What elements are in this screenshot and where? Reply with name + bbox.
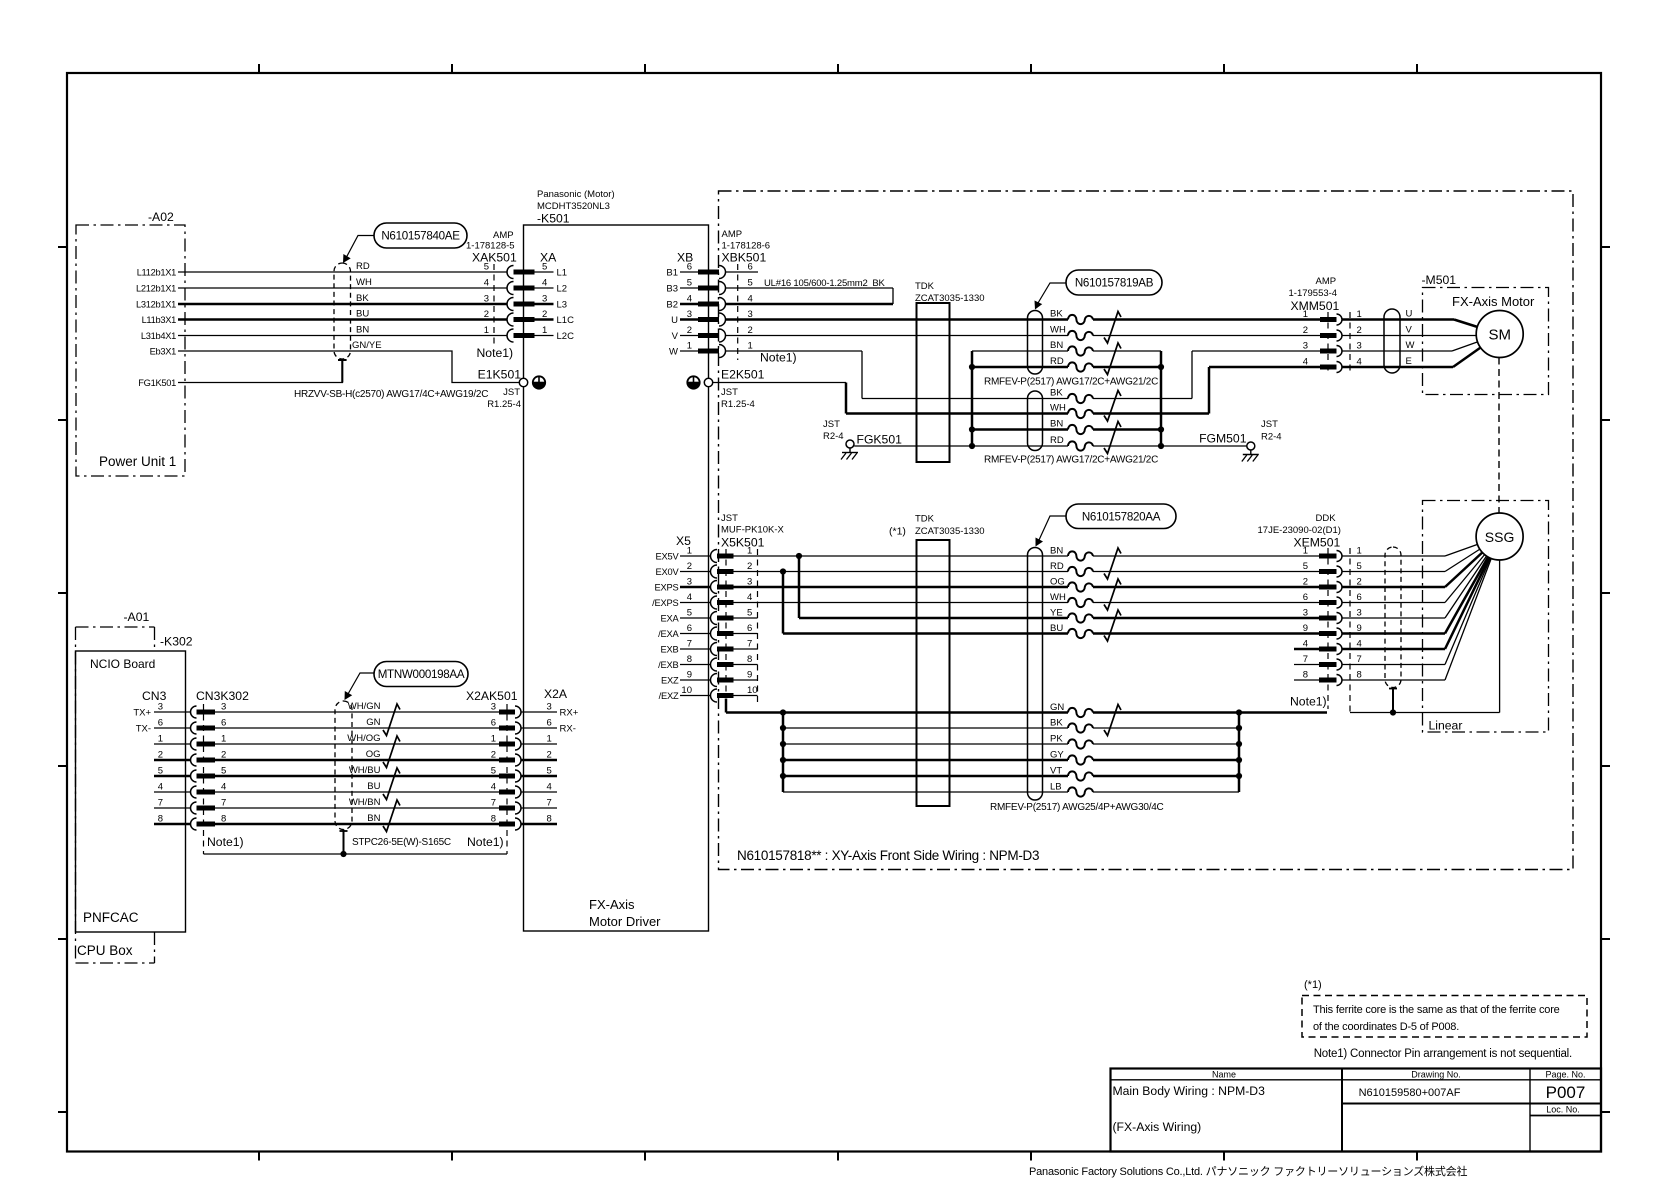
svg-text:6: 6 bbox=[491, 718, 496, 729]
svg-text:8: 8 bbox=[1303, 670, 1308, 681]
svg-text:/EXZ: /EXZ bbox=[659, 691, 679, 701]
svg-text:2: 2 bbox=[1303, 325, 1308, 336]
power wires L1/L2/L3/L1C/L2C with node labels bbox=[136, 267, 507, 388]
svg-text:7: 7 bbox=[547, 798, 552, 809]
svg-text:Name: Name bbox=[1212, 1070, 1236, 1080]
svg-text:-K501: -K501 bbox=[537, 212, 570, 226]
balloon N610157820AA bbox=[1036, 504, 1177, 547]
protective earth symbol at E2K501 bbox=[687, 376, 699, 388]
svg-text:BN: BN bbox=[1050, 546, 1063, 557]
svg-text:1: 1 bbox=[1357, 546, 1362, 557]
svg-text:of the coordinates D-5 of P008: of the coordinates D-5 of P008. bbox=[1313, 1021, 1459, 1033]
svg-text:4: 4 bbox=[158, 782, 163, 793]
svg-text:1: 1 bbox=[221, 734, 226, 745]
svg-text:2: 2 bbox=[1303, 577, 1308, 588]
svg-text:Power Unit 1: Power Unit 1 bbox=[99, 454, 176, 469]
cable capsule encoder right dashed bbox=[1385, 547, 1401, 688]
fan wires XEM501 to SSG bbox=[1342, 537, 1500, 681]
wire RD brake pair bbox=[972, 366, 1161, 369]
svg-text:/EXPS: /EXPS bbox=[652, 598, 678, 608]
svg-text:Note1): Note1) bbox=[477, 346, 514, 360]
svg-text:7: 7 bbox=[1357, 654, 1362, 665]
svg-text:B3: B3 bbox=[666, 283, 678, 294]
svg-text:Motor Driver: Motor Driver bbox=[589, 914, 661, 929]
svg-text:Loc. No.: Loc. No. bbox=[1546, 1105, 1580, 1115]
svg-text:L1C: L1C bbox=[557, 315, 575, 326]
svg-text:17JE-23090-02(D1): 17JE-23090-02(D1) bbox=[1258, 525, 1341, 536]
svg-text:B1: B1 bbox=[666, 267, 678, 278]
earth symbol FGK501 bbox=[849, 448, 851, 453]
twist symbols upper cables bbox=[1068, 312, 1121, 454]
wire color labels encoder cable bbox=[1050, 546, 1066, 793]
svg-text:(*1): (*1) bbox=[1304, 979, 1322, 991]
area XY-Axis Front Side Wiring boundary bbox=[719, 191, 1574, 870]
svg-text:FGK501: FGK501 bbox=[857, 433, 903, 447]
box NCIO Board (-K302) bbox=[76, 635, 193, 933]
svg-text:1: 1 bbox=[491, 734, 496, 745]
wire W to SM motor bbox=[1342, 334, 1500, 351]
svg-text:BK: BK bbox=[356, 293, 369, 304]
svg-text:10: 10 bbox=[747, 685, 758, 696]
svg-text:PNFCAC: PNFCAC bbox=[83, 910, 139, 925]
svg-text:BU: BU bbox=[367, 781, 380, 792]
svg-text:Eb3X1: Eb3X1 bbox=[150, 346, 177, 356]
svg-text:L2C: L2C bbox=[557, 331, 575, 342]
svg-text:MCDHT3520NL3: MCDHT3520NL3 bbox=[537, 201, 610, 212]
svg-text:6: 6 bbox=[158, 718, 163, 729]
wire SSG to shield bbox=[1499, 560, 1501, 713]
wire XBK501 pin6 stub bbox=[726, 271, 759, 273]
svg-text:7: 7 bbox=[687, 639, 692, 650]
wire E to SM motor bbox=[1342, 334, 1500, 367]
svg-text:6: 6 bbox=[1357, 592, 1362, 603]
wire color labels BK WH BN RD lower cable bbox=[1050, 388, 1066, 447]
svg-text:N610157840AE: N610157840AE bbox=[381, 230, 460, 243]
svg-text:-K302: -K302 bbox=[160, 635, 193, 649]
encoder SSG circle bbox=[1476, 513, 1523, 560]
svg-text:YE: YE bbox=[1050, 608, 1063, 619]
svg-text:L1: L1 bbox=[557, 268, 568, 279]
svg-text:Note1): Note1) bbox=[1290, 695, 1327, 709]
svg-text:EXB: EXB bbox=[660, 644, 678, 654]
svg-text:RMFEV-P(2517) AWG17/2C+AWG21/2: RMFEV-P(2517) AWG17/2C+AWG21/2C bbox=[984, 455, 1158, 466]
svg-text:-A02: -A02 bbox=[148, 210, 174, 224]
cable capsule RMFEV-P upper bbox=[1028, 311, 1043, 375]
svg-text:2: 2 bbox=[547, 750, 552, 761]
svg-text:6: 6 bbox=[748, 262, 753, 273]
svg-text:RD: RD bbox=[1050, 356, 1064, 367]
svg-text:ZCAT3035-1330: ZCAT3035-1330 bbox=[915, 526, 985, 537]
svg-text:BN: BN bbox=[1050, 419, 1063, 430]
svg-text:3: 3 bbox=[547, 702, 552, 713]
svg-text:4: 4 bbox=[687, 592, 692, 603]
svg-text:3: 3 bbox=[1357, 608, 1362, 619]
balloon N610157819AB bbox=[1035, 270, 1163, 310]
svg-text:WH/BU: WH/BU bbox=[349, 765, 381, 776]
svg-text:9: 9 bbox=[687, 670, 692, 681]
svg-text:2: 2 bbox=[687, 325, 692, 336]
box FX-Axis Motor (-M501) bbox=[1422, 273, 1549, 395]
svg-text:LB: LB bbox=[1050, 782, 1062, 793]
wire stubs X5K501 pins 5-10 bbox=[734, 618, 758, 696]
svg-text:FGM501: FGM501 bbox=[1199, 432, 1247, 446]
note box ferrite (*1) bbox=[1302, 979, 1587, 1037]
svg-text:FX-Axis: FX-Axis bbox=[589, 897, 635, 912]
svg-text:L2: L2 bbox=[557, 284, 568, 295]
connector X2A pins RX+ RX- bbox=[521, 687, 579, 825]
svg-text:V: V bbox=[672, 331, 679, 342]
svg-text:MUF-PK10K-X: MUF-PK10K-X bbox=[721, 525, 784, 536]
svg-text:EXZ: EXZ bbox=[661, 675, 679, 685]
svg-text:7: 7 bbox=[491, 798, 496, 809]
svg-text:Panasonic (Motor): Panasonic (Motor) bbox=[537, 189, 615, 200]
svg-text:This ferrite core is the same: This ferrite core is the same as that of… bbox=[1313, 1004, 1560, 1016]
wire color labels BK WH BN RD upper cable bbox=[1050, 309, 1066, 368]
ground FGM501 bbox=[1199, 419, 1282, 450]
svg-text:XBK501: XBK501 bbox=[722, 251, 767, 265]
svg-text:Note1) Connector Pin arrangeme: Note1) Connector Pin arrangement is not … bbox=[1314, 1048, 1572, 1060]
wire stubs XEM501 pins 4 7 8 bbox=[1294, 649, 1319, 680]
wire W phase XBK501-1 via BK pair to XMM501-3 bbox=[726, 351, 1321, 399]
svg-text:DDK: DDK bbox=[1316, 513, 1337, 524]
svg-text:3: 3 bbox=[484, 294, 489, 305]
encoder cable shield drain bbox=[1389, 688, 1397, 713]
svg-text:5: 5 bbox=[1357, 561, 1362, 572]
wire color labels RD WH BK BU BN GN/YE bbox=[352, 261, 382, 351]
svg-text:7: 7 bbox=[747, 639, 752, 650]
svg-text:JST: JST bbox=[1261, 419, 1278, 430]
svg-text:1-179553-4: 1-179553-4 bbox=[1289, 288, 1338, 299]
ground E2K501 terminal bbox=[704, 368, 764, 411]
wire color labels WH/GN GN WH/OG OG WH/BU BU WH/BN BN bbox=[347, 701, 380, 824]
svg-text:SSG: SSG bbox=[1485, 529, 1515, 545]
box CPU Box (-A01) bbox=[76, 610, 155, 963]
svg-text:BU: BU bbox=[356, 309, 369, 320]
svg-text:7: 7 bbox=[158, 798, 163, 809]
svg-text:6: 6 bbox=[221, 718, 226, 729]
svg-text:6: 6 bbox=[1303, 592, 1308, 603]
svg-text:5: 5 bbox=[747, 608, 752, 619]
svg-text:R2-4: R2-4 bbox=[1261, 432, 1282, 443]
svg-text:MTNW000198AA: MTNW000198AA bbox=[378, 668, 465, 681]
svg-text:BN: BN bbox=[356, 325, 369, 336]
svg-text:3: 3 bbox=[687, 309, 692, 320]
svg-text:N610159580+007AF: N610159580+007AF bbox=[1359, 1087, 1461, 1099]
svg-text:4: 4 bbox=[1303, 357, 1308, 368]
svg-text:JST: JST bbox=[721, 513, 738, 524]
svg-text:EX0V: EX0V bbox=[656, 567, 680, 577]
svg-text:L31b4X1: L31b4X1 bbox=[141, 331, 176, 341]
balloon MTNW000198AA bbox=[345, 662, 469, 701]
connector XAK501 (AMP 1-178128-5) bbox=[466, 230, 535, 344]
ferrite core TDK ZCAT3035-1330 lower (*1) bbox=[889, 514, 985, 807]
junction column bottom right x1239 bbox=[1236, 713, 1242, 793]
wire V to SM motor bbox=[1342, 335, 1500, 337]
box FX-Axis Motor Driver (-K501) bbox=[524, 189, 709, 931]
svg-text:XEM501: XEM501 bbox=[1294, 536, 1341, 550]
svg-text:1: 1 bbox=[158, 734, 163, 745]
wire RD2 FGK501 to FGM501 bbox=[854, 445, 1247, 447]
svg-text:VT: VT bbox=[1050, 766, 1062, 777]
svg-text:AMP: AMP bbox=[722, 229, 743, 240]
svg-text:V: V bbox=[1406, 325, 1413, 336]
cable capsule STPC26 bbox=[335, 701, 352, 830]
svg-text:E: E bbox=[1406, 356, 1412, 367]
shield wire between connector shells bbox=[204, 851, 508, 857]
svg-text:N610157820AA: N610157820AA bbox=[1082, 510, 1161, 523]
wire EX0V row with branch to BU bbox=[734, 568, 1320, 633]
svg-text:1: 1 bbox=[748, 341, 753, 352]
svg-text:WH: WH bbox=[356, 277, 372, 288]
svg-text:U: U bbox=[671, 315, 678, 326]
svg-text:5: 5 bbox=[542, 262, 547, 273]
svg-text:4: 4 bbox=[221, 782, 226, 793]
wire FG1K501 to cable shield bbox=[178, 382, 343, 384]
svg-text:WH: WH bbox=[1050, 592, 1066, 603]
svg-text:/EXA: /EXA bbox=[658, 629, 679, 639]
svg-text:-A01: -A01 bbox=[124, 610, 150, 624]
svg-text:W: W bbox=[669, 346, 678, 357]
svg-text:AMP: AMP bbox=[493, 230, 514, 241]
svg-text:P007: P007 bbox=[1546, 1083, 1586, 1102]
svg-text:WH: WH bbox=[1050, 403, 1066, 414]
svg-text:3: 3 bbox=[158, 702, 163, 713]
svg-text:3: 3 bbox=[491, 702, 496, 713]
svg-text:2: 2 bbox=[747, 561, 752, 572]
junction column bottom left x783 bbox=[780, 713, 786, 793]
wire shield to SSG bbox=[1350, 709, 1500, 715]
ground FGK501 bbox=[823, 419, 902, 448]
svg-text:GN: GN bbox=[1050, 702, 1064, 713]
svg-text:4: 4 bbox=[687, 294, 692, 305]
svg-text:8: 8 bbox=[1357, 670, 1362, 681]
svg-text:OG: OG bbox=[1050, 577, 1065, 588]
svg-text:BN: BN bbox=[1050, 340, 1063, 351]
svg-text:PK: PK bbox=[1050, 734, 1063, 745]
svg-text:9: 9 bbox=[747, 670, 752, 681]
svg-text:TX+: TX+ bbox=[133, 708, 151, 719]
svg-text:Panasonic Factory Solutions Co: Panasonic Factory Solutions Co.,Ltd. パナソ… bbox=[1029, 1164, 1467, 1178]
svg-text:L11b3X1: L11b3X1 bbox=[142, 315, 177, 325]
svg-text:FG1K501: FG1K501 bbox=[138, 378, 176, 388]
svg-text:2: 2 bbox=[484, 309, 489, 320]
svg-text:EXPS: EXPS bbox=[654, 582, 678, 592]
svg-text:2: 2 bbox=[748, 325, 753, 336]
ferrite core TDK ZCAT3035-1330 upper bbox=[915, 281, 985, 462]
svg-text:L312b1X1: L312b1X1 bbox=[136, 299, 176, 309]
svg-text:6: 6 bbox=[687, 262, 692, 273]
wire VT row bbox=[783, 775, 1239, 778]
svg-text:JST: JST bbox=[823, 419, 840, 430]
svg-text:8: 8 bbox=[547, 814, 552, 825]
box Linear scale bbox=[1423, 501, 1549, 733]
connector X2AK501 bbox=[466, 689, 521, 854]
ground E1K501 terminal circle bbox=[519, 378, 527, 386]
svg-text:X5K501: X5K501 bbox=[721, 536, 765, 550]
svg-text:Linear: Linear bbox=[1429, 719, 1463, 733]
svg-text:1: 1 bbox=[484, 325, 489, 336]
svg-text:R1.25-4: R1.25-4 bbox=[487, 399, 521, 410]
svg-text:-M501: -M501 bbox=[1422, 273, 1457, 287]
svg-text:2: 2 bbox=[687, 561, 692, 572]
motor shaft dashed link bbox=[1498, 358, 1500, 514]
svg-text:L212b1X1: L212b1X1 bbox=[136, 283, 176, 293]
svg-text:NCIO Board: NCIO Board bbox=[90, 657, 155, 671]
cable capsule RMFEV-P lower bbox=[1028, 391, 1043, 451]
wire E2K501 via WH pair to XMM501-4 bbox=[713, 367, 1320, 414]
svg-text:5: 5 bbox=[687, 608, 692, 619]
svg-text:XMM501: XMM501 bbox=[1291, 299, 1340, 313]
svg-text:7: 7 bbox=[1303, 654, 1308, 665]
svg-text:1: 1 bbox=[687, 341, 692, 352]
svg-text:(FX-Axis Wiring): (FX-Axis Wiring) bbox=[1113, 1120, 1202, 1134]
connector X5 pins bbox=[652, 534, 710, 701]
connector X5K501 (JST MUF-PK10K-X) bbox=[711, 513, 785, 702]
svg-text:5: 5 bbox=[687, 278, 692, 289]
svg-text:6: 6 bbox=[747, 623, 752, 634]
wire LB row bbox=[783, 791, 1239, 793]
svg-text:Note1): Note1) bbox=[760, 351, 797, 365]
svg-text:E1K501: E1K501 bbox=[478, 368, 522, 382]
svg-text:6: 6 bbox=[547, 718, 552, 729]
svg-text:EXA: EXA bbox=[660, 613, 679, 623]
wire GY row bbox=[783, 759, 1239, 762]
cable capsule motor leads bbox=[1384, 309, 1400, 373]
svg-text:Main Body Wiring : NPM-D3: Main Body Wiring : NPM-D3 bbox=[1113, 1084, 1266, 1098]
twist symbols LAN cable bbox=[383, 704, 400, 832]
svg-text:(*1): (*1) bbox=[889, 526, 906, 538]
svg-text:HRZVV-SB-H(c2570) AWG17/4C+AWG: HRZVV-SB-H(c2570) AWG17/4C+AWG19/2C bbox=[294, 389, 488, 400]
svg-text:1: 1 bbox=[687, 546, 692, 557]
svg-text:BU: BU bbox=[1050, 623, 1063, 634]
svg-text:E2K501: E2K501 bbox=[721, 368, 765, 382]
svg-text:OG: OG bbox=[366, 749, 381, 760]
wire EXPS OG row bbox=[734, 586, 1320, 589]
svg-text:RX+: RX+ bbox=[560, 708, 579, 719]
svg-text:STPC26-5E(W)-S165C: STPC26-5E(W)-S165C bbox=[352, 837, 451, 848]
wire V phase XBK501-2 to XMM501-2 bbox=[726, 335, 1321, 337]
svg-text:GN: GN bbox=[366, 717, 380, 728]
svg-text:Note1): Note1) bbox=[207, 835, 244, 849]
svg-text:4: 4 bbox=[542, 278, 547, 289]
svg-text:EX5V: EX5V bbox=[656, 551, 680, 561]
cable capsule RMFEV-P encoder bbox=[1028, 548, 1043, 801]
svg-text:2: 2 bbox=[1357, 325, 1362, 336]
svg-text:3: 3 bbox=[1357, 341, 1362, 352]
wire GN shield row start bbox=[726, 699, 1327, 716]
svg-text:/EXB: /EXB bbox=[658, 660, 678, 670]
earth symbol FGM501 bbox=[1250, 450, 1252, 455]
svg-text:BK: BK bbox=[1050, 309, 1063, 320]
svg-text:BN: BN bbox=[367, 813, 380, 824]
svg-text:Note1): Note1) bbox=[467, 835, 504, 849]
svg-text:Page. No.: Page. No. bbox=[1545, 1070, 1585, 1080]
svg-text:2: 2 bbox=[491, 750, 496, 761]
wire U phase XBK501-3 to XMM501-1 bbox=[726, 318, 1321, 321]
svg-text:RD: RD bbox=[1050, 561, 1064, 572]
svg-text:5: 5 bbox=[484, 262, 489, 273]
svg-text:8: 8 bbox=[687, 654, 692, 665]
svg-text:WH: WH bbox=[1050, 325, 1066, 336]
cable capsule HRZVV-SB-H bbox=[334, 263, 351, 359]
svg-text:4: 4 bbox=[484, 278, 489, 289]
svg-text:4: 4 bbox=[547, 782, 552, 793]
svg-text:R1.25-4: R1.25-4 bbox=[721, 399, 755, 410]
svg-text:UL#16 105/600-1.25mm2 BK: UL#16 105/600-1.25mm2 BK bbox=[764, 278, 886, 289]
svg-text:4: 4 bbox=[747, 592, 752, 603]
svg-text:TDK: TDK bbox=[915, 281, 935, 292]
svg-text:10: 10 bbox=[681, 685, 692, 696]
svg-text:3: 3 bbox=[1303, 608, 1308, 619]
svg-text:ZCAT3035-1330: ZCAT3035-1330 bbox=[915, 293, 985, 304]
wire /EXPS WH row bbox=[734, 602, 1320, 604]
protective earth symbol at E1K501 bbox=[533, 376, 545, 388]
svg-text:TDK: TDK bbox=[915, 514, 935, 525]
wire BN brake pair bbox=[972, 350, 1161, 352]
svg-text:9: 9 bbox=[1303, 623, 1308, 634]
connector CN3 bbox=[133, 689, 190, 825]
connector XBK501 (AMP 1-178128-6) bbox=[698, 229, 797, 365]
svg-text:X2A: X2A bbox=[544, 687, 568, 701]
svg-text:6: 6 bbox=[687, 623, 692, 634]
svg-text:N610157818** : XY-Axis Front S: N610157818** : XY-Axis Front Side Wiring… bbox=[737, 848, 1039, 863]
connector XB pins B1 B3 B2 U V W bbox=[666, 251, 698, 358]
svg-text:1: 1 bbox=[1303, 309, 1308, 320]
note labels Note1 at CN3K302 and X2AK501 bbox=[207, 835, 504, 849]
svg-text:SM: SM bbox=[1488, 327, 1511, 344]
svg-text:Drawing No.: Drawing No. bbox=[1411, 1070, 1461, 1080]
svg-text:1: 1 bbox=[542, 325, 547, 336]
svg-text:2: 2 bbox=[542, 309, 547, 320]
wires CN3K302 to X2AK501 bbox=[215, 712, 499, 824]
svg-text:7: 7 bbox=[221, 798, 226, 809]
connector XMM501 (AMP 1-179553-4) bbox=[1289, 276, 1362, 374]
svg-text:RD: RD bbox=[1050, 435, 1064, 446]
svg-text:WH/BN: WH/BN bbox=[349, 797, 381, 808]
svg-text:R2-4: R2-4 bbox=[823, 431, 844, 442]
svg-text:1: 1 bbox=[747, 546, 752, 557]
svg-text:5: 5 bbox=[1303, 561, 1308, 572]
svg-text:N610157819AB: N610157819AB bbox=[1075, 277, 1154, 290]
svg-text:W: W bbox=[1406, 340, 1415, 351]
wire BU row to XEM501-9 bbox=[783, 632, 1319, 635]
svg-text:RD: RD bbox=[356, 261, 370, 272]
svg-text:RMFEV-P(2517) AWG25/4P+AWG30/4: RMFEV-P(2517) AWG25/4P+AWG30/4C bbox=[990, 802, 1164, 813]
svg-text:JST: JST bbox=[721, 387, 738, 398]
wire EX5V row with branch to YE bbox=[734, 553, 1320, 618]
wire BN2 parallel pair bbox=[972, 428, 1161, 431]
svg-text:1: 1 bbox=[547, 734, 552, 745]
connector XA pins L1 L2 L3 L1C L2C bbox=[477, 251, 575, 361]
svg-text:BK: BK bbox=[1050, 388, 1063, 399]
wire GN/YE Eb3X1 to E1K501 bbox=[178, 351, 519, 383]
svg-text:WH/GN: WH/GN bbox=[348, 701, 381, 712]
connector XEM501 (DDK 17JE-23090-02(D1)) bbox=[1258, 513, 1362, 713]
svg-text:L3: L3 bbox=[557, 300, 568, 311]
ground E1K501 terminal bbox=[478, 368, 522, 411]
svg-text:3: 3 bbox=[542, 294, 547, 305]
connector CN3K302 bbox=[191, 689, 250, 854]
svg-text:8: 8 bbox=[491, 814, 496, 825]
svg-text:TX-: TX- bbox=[136, 724, 151, 735]
wire labels U V W E bbox=[1406, 309, 1415, 368]
box Power Unit 1 (-A02) bbox=[76, 210, 185, 476]
junction column left x972 bbox=[969, 351, 975, 449]
svg-text:U: U bbox=[1406, 309, 1413, 320]
svg-text:3: 3 bbox=[1303, 341, 1308, 352]
wire PK row bbox=[783, 743, 1239, 745]
svg-text:XAK501: XAK501 bbox=[472, 251, 517, 265]
